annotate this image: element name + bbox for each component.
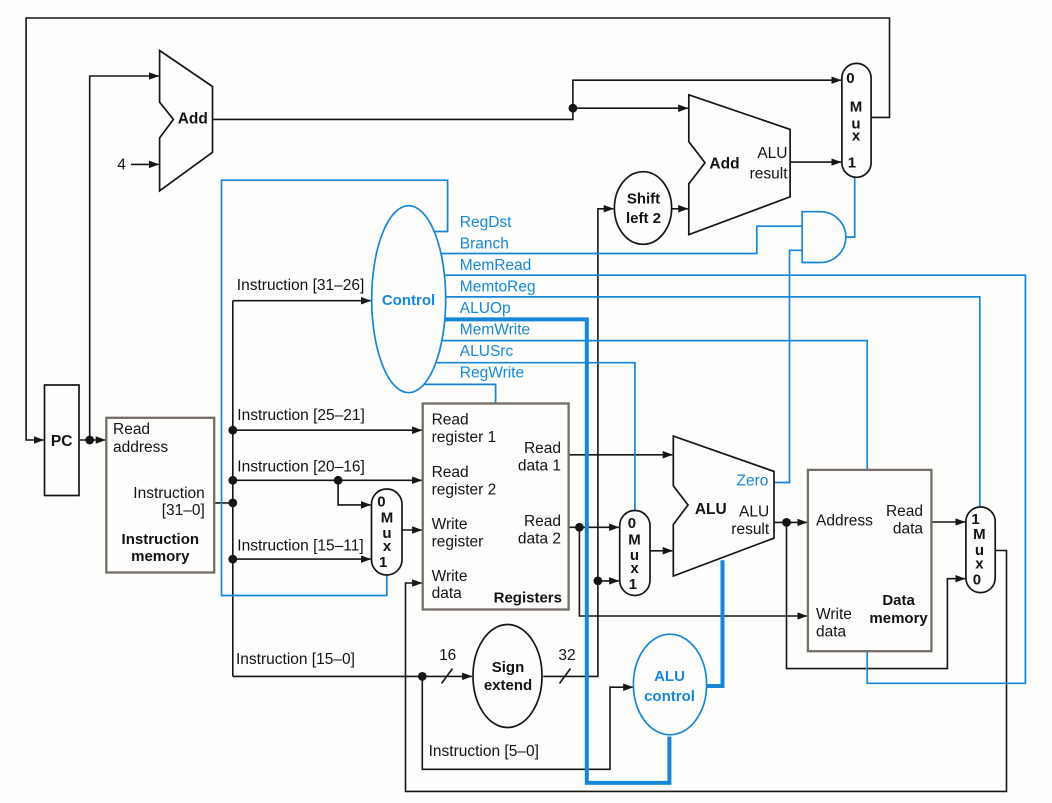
svg-text:Instruction [25–21]: Instruction [25–21]: [237, 407, 365, 424]
svg-text:1: 1: [379, 554, 387, 571]
svg-text:32: 32: [558, 647, 575, 664]
svg-text:Write: Write: [432, 516, 468, 533]
svg-text:M: M: [628, 531, 641, 548]
svg-text:register 1: register 1: [432, 429, 497, 446]
svg-text:address: address: [113, 439, 168, 456]
svg-text:x: x: [852, 128, 861, 145]
svg-text:Instruction [20–16]: Instruction [20–16]: [237, 459, 365, 476]
svg-text:left 2: left 2: [626, 210, 661, 227]
svg-text:[31–0]: [31–0]: [162, 502, 205, 519]
svg-text:Instruction [15–11]: Instruction [15–11]: [237, 538, 363, 555]
svg-text:x: x: [383, 538, 392, 555]
svg-text:Zero: Zero: [737, 473, 769, 490]
svg-text:data 2: data 2: [518, 530, 561, 547]
svg-text:RegWrite: RegWrite: [460, 365, 524, 382]
svg-text:Read: Read: [113, 421, 150, 438]
svg-text:Instruction [15–0]: Instruction [15–0]: [236, 651, 355, 668]
svg-text:RegDst: RegDst: [460, 214, 512, 231]
svg-text:ALUSrc: ALUSrc: [460, 343, 514, 360]
svg-text:Instruction: Instruction: [122, 531, 200, 548]
svg-text:4: 4: [117, 157, 126, 174]
svg-text:0: 0: [628, 515, 636, 532]
svg-text:data: data: [893, 521, 924, 538]
svg-text:data: data: [432, 585, 463, 602]
svg-text:x: x: [630, 560, 639, 577]
svg-text:Instruction [31–26]: Instruction [31–26]: [237, 277, 365, 294]
svg-text:1: 1: [629, 576, 637, 593]
svg-text:0: 0: [377, 494, 385, 511]
svg-text:Read: Read: [432, 412, 469, 429]
svg-text:Write: Write: [432, 568, 468, 585]
svg-text:result: result: [731, 521, 770, 538]
svg-text:register: register: [432, 534, 484, 551]
svg-text:Add: Add: [709, 156, 739, 173]
svg-text:result: result: [750, 166, 789, 183]
svg-text:Control: Control: [382, 292, 435, 309]
svg-text:Add: Add: [178, 111, 208, 128]
svg-text:PC: PC: [51, 433, 73, 450]
svg-text:control: control: [644, 688, 695, 705]
svg-text:0: 0: [973, 571, 981, 588]
svg-text:M: M: [850, 99, 863, 116]
svg-text:ALU: ALU: [739, 504, 769, 521]
svg-text:Read: Read: [432, 464, 469, 481]
svg-text:ALU: ALU: [695, 501, 727, 518]
svg-text:Write: Write: [816, 606, 852, 623]
svg-text:ALU: ALU: [654, 668, 685, 685]
svg-text:memory: memory: [131, 548, 190, 565]
svg-text:register 2: register 2: [432, 482, 497, 499]
svg-text:0: 0: [846, 70, 854, 87]
svg-text:x: x: [975, 555, 984, 572]
svg-text:extend: extend: [484, 677, 532, 694]
svg-text:Address: Address: [816, 513, 873, 530]
svg-text:Shift: Shift: [627, 190, 660, 207]
svg-text:Data: Data: [882, 592, 915, 609]
svg-text:M: M: [381, 509, 394, 526]
svg-text:M: M: [973, 526, 986, 543]
svg-text:memory: memory: [869, 610, 928, 627]
svg-text:Read: Read: [886, 503, 923, 520]
svg-text:16: 16: [439, 647, 456, 664]
svg-text:Read: Read: [524, 440, 561, 457]
svg-text:ALU: ALU: [757, 145, 787, 162]
svg-text:MemtoReg: MemtoReg: [460, 279, 536, 296]
svg-text:Registers: Registers: [494, 590, 562, 607]
svg-text:ALUOp: ALUOp: [460, 300, 511, 317]
svg-text:Read: Read: [524, 513, 561, 530]
svg-text:data 1: data 1: [518, 458, 561, 475]
svg-text:Branch: Branch: [460, 236, 509, 253]
svg-text:Instruction [5–0]: Instruction [5–0]: [429, 743, 539, 760]
svg-text:MemWrite: MemWrite: [460, 322, 530, 339]
svg-text:1: 1: [848, 155, 856, 172]
svg-text:Sign: Sign: [492, 659, 525, 676]
svg-text:Instruction: Instruction: [133, 485, 205, 502]
svg-text:MemRead: MemRead: [460, 257, 532, 274]
svg-text:data: data: [816, 624, 847, 641]
